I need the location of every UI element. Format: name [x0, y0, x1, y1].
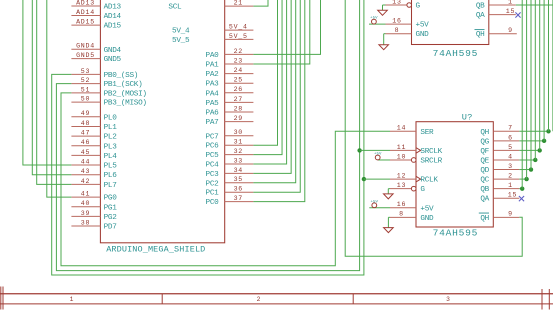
svg-text:46: 46 [81, 139, 90, 146]
svg-text:5V_4: 5V_4 [229, 24, 248, 31]
pin GND5 GND5 of ARDUINO_MEGA_SHIELD [71, 52, 121, 64]
svg-text:9: 9 [508, 211, 513, 218]
svg-text:38: 38 [81, 219, 90, 226]
pin 3 QD of lower U? to column bus [480, 163, 531, 175]
pin 37 PC0 of ARDUINO_MEGA_SHIELD [206, 195, 254, 207]
svg-text:PL5: PL5 [104, 163, 118, 171]
pin 41 PG0 of ARDUINO_MEGA_SHIELD [71, 191, 117, 203]
pin 9 QH\ of upper U? [475, 27, 517, 39]
svg-text:6: 6 [508, 134, 513, 141]
+5V supply symbol on lower pin 16 [369, 200, 390, 208]
svg-text:PB1_(SCK): PB1_(SCK) [104, 81, 143, 89]
svg-text:PG1: PG1 [104, 204, 118, 212]
pin 13 G of lower U? with inverter bubble [390, 182, 425, 194]
svg-text:74AH595: 74AH595 [433, 48, 479, 59]
svg-text:+5V: +5V [371, 200, 379, 204]
svg-text:26: 26 [234, 86, 243, 93]
svg-text:QC: QC [480, 177, 489, 185]
svg-text:49: 49 [81, 110, 90, 117]
svg-text:QH: QH [476, 31, 485, 39]
svg-text:QH: QH [480, 215, 489, 223]
pin 16 +5V of upper U? [386, 18, 430, 30]
svg-text:9: 9 [508, 27, 513, 34]
wire net SS from pin 53 down and along bottom to RCLK chain [52, 0, 364, 275]
svg-text:40: 40 [81, 200, 90, 207]
svg-text:ARDUINO_MEGA_SHIELD: ARDUINO_MEGA_SHIELD [106, 245, 205, 255]
svg-text:PA1: PA1 [206, 62, 220, 70]
pin 13 G of upper U? with inverter bubble [386, 0, 421, 11]
wire net MOSI from pin 51 down and along bottom to SER pin 14 [61, 93, 390, 266]
svg-text:SRCLR: SRCLR [420, 157, 442, 165]
svg-text:PC3: PC3 [206, 171, 220, 179]
svg-text:PA2: PA2 [206, 71, 220, 79]
svg-text:74AH595: 74AH595 [433, 228, 479, 239]
svg-text:PA4: PA4 [206, 90, 220, 98]
pin 45 PL4 of ARDUINO_MEGA_SHIELD [71, 149, 117, 161]
svg-text:PC7: PC7 [206, 133, 220, 141]
junction dot column QD [529, 167, 533, 171]
svg-text:51: 51 [81, 86, 90, 93]
svg-text:35: 35 [234, 176, 243, 183]
svg-text:33: 33 [234, 157, 243, 164]
wire net PL5 from top edge to pin 44 [23, 0, 72, 165]
svg-text:QA: QA [476, 12, 485, 20]
svg-text:8: 8 [395, 27, 400, 34]
pin 27 PA5 of ARDUINO_MEGA_SHIELD [206, 96, 254, 108]
svg-text:47: 47 [81, 130, 90, 137]
svg-text:PD7: PD7 [104, 224, 118, 232]
pin 21 SCL of ARDUINO_MEGA_SHIELD [168, 0, 253, 12]
ground symbol on lower pin 8 [384, 217, 394, 232]
svg-text:41: 41 [81, 191, 90, 198]
pin AD14 AD14 of ARDUINO_MEGA_SHIELD [71, 9, 121, 21]
svg-text:42: 42 [81, 178, 90, 185]
svg-text:PL4: PL4 [104, 153, 118, 161]
ground symbol on lower pin 13 [384, 189, 394, 199]
pin 23 PA1 of ARDUINO_MEGA_SHIELD [206, 57, 254, 69]
junction dot column QG [542, 139, 546, 143]
svg-text:PL2: PL2 [104, 134, 118, 142]
wire net PC0 from pin 37 to top edge [253, 0, 304, 202]
svg-text:GND4: GND4 [76, 43, 95, 50]
svg-text:QE: QE [480, 157, 489, 165]
svg-text:PL6: PL6 [104, 172, 118, 180]
svg-text:GND5: GND5 [76, 52, 95, 59]
wire net PL6 from top edge to pin 43 [32, 0, 71, 175]
svg-text:PB2_(MOSI): PB2_(MOSI) [104, 90, 147, 98]
junction dot column QB [520, 186, 524, 190]
svg-text:1: 1 [508, 182, 513, 189]
pin GND4 GND4 of ARDUINO_MEGA_SHIELD [71, 43, 121, 55]
svg-text:4: 4 [508, 153, 513, 160]
svg-text:25: 25 [234, 77, 243, 84]
wire net SCL from pin 21 to top edge [253, 0, 268, 6]
svg-text:16: 16 [397, 201, 406, 208]
svg-text:PC2: PC2 [206, 180, 220, 188]
svg-text:5V_4: 5V_4 [172, 28, 190, 36]
svg-text:AD15: AD15 [104, 23, 122, 31]
svg-text:G: G [416, 3, 421, 11]
pin 11 SRCLK of lower U? with clock mark [360, 144, 443, 156]
svg-text:7: 7 [508, 125, 513, 132]
svg-text:PC1: PC1 [206, 190, 220, 198]
svg-text:43: 43 [81, 168, 90, 175]
svg-text:AD13: AD13 [76, 0, 95, 6]
svg-text:QD: QD [480, 167, 489, 175]
svg-text:8: 8 [399, 211, 404, 218]
svg-text:23: 23 [234, 57, 243, 64]
pin 5 QF of lower U? to column bus [480, 144, 539, 156]
pin 42 PL7 of ARDUINO_MEGA_SHIELD [71, 178, 117, 190]
pin 4 QE of lower U? to column bus [480, 153, 535, 165]
wire column bus vertical QF [539, 0, 541, 150]
svg-text:GND: GND [420, 215, 434, 223]
pin 30 PC7 of ARDUINO_MEGA_SHIELD [206, 129, 254, 141]
svg-text:AD13: AD13 [104, 4, 122, 12]
svg-text:QH: QH [480, 129, 489, 137]
pin 35 PC2 of ARDUINO_MEGA_SHIELD [206, 176, 254, 188]
wire net PG0 from top edge to pin 41 [47, 0, 72, 197]
IC U$1 ARDUINO_MEGA_SHIELD body [100, 0, 224, 255]
+5V supply symbol on upper pin 16 [369, 17, 386, 25]
svg-text:AD14: AD14 [76, 9, 95, 16]
svg-text:1: 1 [508, 0, 513, 5]
svg-text:48: 48 [81, 120, 90, 127]
svg-text:PA3: PA3 [206, 81, 220, 89]
junction dot column QC [524, 177, 528, 181]
pin 32 PC5 of ARDUINO_MEGA_SHIELD [206, 148, 254, 160]
svg-text:14: 14 [397, 125, 406, 132]
svg-text:G: G [420, 186, 425, 194]
svg-text:2: 2 [257, 296, 261, 303]
svg-text:27: 27 [234, 96, 243, 103]
svg-text:15: 15 [508, 192, 517, 199]
wire net PC3 from pin 34 to top edge [253, 0, 291, 173]
svg-text:22: 22 [234, 48, 243, 55]
svg-text:15: 15 [506, 8, 515, 15]
pin AD13 AD13 of ARDUINO_MEGA_SHIELD [71, 0, 121, 12]
svg-text:QG: QG [480, 138, 489, 146]
wire column bus vertical QD [530, 0, 532, 170]
wire net PC5 from pin 32 to top edge [253, 0, 282, 155]
pin 15 QA of lower U? with no-connect cross [480, 192, 524, 204]
pin 24 PA2 of ARDUINO_MEGA_SHIELD [206, 67, 254, 79]
svg-text:3: 3 [508, 163, 513, 170]
svg-text:44: 44 [81, 158, 90, 165]
pin 53 PB0_(SS) of ARDUINO_MEGA_SHIELD [71, 68, 138, 80]
pin 48 PL1 of ARDUINO_MEGA_SHIELD [71, 120, 117, 132]
+5V supply symbol on SRCLR pin 10 [374, 152, 390, 160]
wire net lower QH\ serial out: right, down, along bottom, up at x=344.8 to top edge [345, 0, 522, 256]
svg-text:12: 12 [397, 173, 406, 180]
svg-text:PB3_(MISO): PB3_(MISO) [104, 100, 147, 108]
wire net PC6 from pin 31 to top edge [253, 0, 277, 145]
svg-text:53: 53 [81, 68, 90, 75]
pin 31 PC6 of ARDUINO_MEGA_SHIELD [206, 139, 254, 151]
svg-text:+5V: +5V [370, 17, 378, 21]
pin 16 +5V of lower U? [390, 201, 434, 213]
sheet frame bottom band [0, 287, 553, 310]
svg-text:PL3: PL3 [104, 143, 118, 151]
svg-text:SCL: SCL [168, 4, 182, 12]
pin 51 PB2_(MOSI) of ARDUINO_MEGA_SHIELD [71, 86, 146, 98]
junction dot column QE [533, 158, 537, 162]
svg-text:PC4: PC4 [206, 162, 220, 170]
wire column bus vertical QE [534, 0, 536, 160]
pin 15 QA of upper U? with no-connect cross [476, 8, 521, 20]
svg-text:52: 52 [81, 77, 90, 84]
pin 44 PL5 of ARDUINO_MEGA_SHIELD [71, 158, 117, 170]
svg-text:PC0: PC0 [206, 199, 220, 207]
svg-text:GND5: GND5 [104, 56, 122, 64]
svg-text:SER: SER [420, 129, 434, 137]
svg-text:SRCLK: SRCLK [420, 148, 442, 156]
pin 8 GND of upper U? [386, 27, 430, 39]
svg-text:24: 24 [234, 67, 243, 74]
wire net PC2 from pin 35 to top edge [253, 0, 295, 183]
pin 52 PB1_(SCK) of ARDUINO_MEGA_SHIELD [71, 77, 142, 89]
pin 10 SRCLR of lower U? with inverter bubble [390, 153, 443, 165]
pin 47 PL2 of ARDUINO_MEGA_SHIELD [71, 130, 117, 142]
pin 8 GND of lower U? [390, 211, 434, 223]
svg-text:28: 28 [234, 105, 243, 112]
svg-text:PL1: PL1 [104, 124, 118, 132]
wire column bus vertical QH [548, 0, 550, 131]
svg-text:31: 31 [234, 139, 243, 146]
svg-text:2: 2 [508, 173, 513, 180]
svg-text:32: 32 [234, 148, 243, 155]
pin 36 PC1 of ARDUINO_MEGA_SHIELD [206, 186, 254, 198]
svg-text:RCLK: RCLK [420, 177, 438, 185]
pin 33 PC4 of ARDUINO_MEGA_SHIELD [206, 157, 254, 169]
svg-text:16: 16 [392, 18, 401, 25]
pin 2 QC of lower U? to column bus [480, 173, 526, 185]
pin 38 PD7 of ARDUINO_MEGA_SHIELD [71, 219, 117, 231]
svg-text:PC5: PC5 [206, 152, 220, 160]
junction dot column QH [546, 129, 550, 133]
pin 14 SER of lower U? [390, 125, 434, 137]
pin 1 QB of upper U? wire to right edge [476, 0, 553, 11]
wire net PC4 from pin 33 to top edge [253, 0, 286, 164]
pin 29 PA7 of ARDUINO_MEGA_SHIELD [206, 115, 254, 127]
svg-text:PL0: PL0 [104, 114, 118, 122]
wire column bus vertical 8 [552, 0, 553, 131]
svg-text:13: 13 [392, 0, 401, 5]
svg-text:PL7: PL7 [104, 182, 118, 190]
wire net PA1 from pin 23 to top edge [253, 0, 309, 64]
pin 40 PG1 of ARDUINO_MEGA_SHIELD [71, 200, 117, 212]
svg-text:PA6: PA6 [206, 110, 220, 118]
pin AD15 AD15 of ARDUINO_MEGA_SHIELD [71, 19, 121, 31]
wire net SCK from pin 52 down and along bottom to SRCLK chain [56, 0, 359, 271]
pin 49 PL0 of ARDUINO_MEGA_SHIELD [71, 110, 117, 122]
svg-text:+5V: +5V [420, 205, 434, 213]
pin 12 RCLK of lower U? with clock mark [364, 173, 438, 185]
svg-text:37: 37 [234, 195, 243, 202]
pin 34 PC3 of ARDUINO_MEGA_SHIELD [206, 167, 254, 179]
svg-text:GND: GND [416, 31, 430, 39]
svg-text:PC6: PC6 [206, 143, 220, 151]
svg-text:13: 13 [397, 182, 406, 189]
svg-text:45: 45 [81, 149, 90, 156]
svg-text:30: 30 [234, 129, 243, 136]
pin 43 PL6 of ARDUINO_MEGA_SHIELD [71, 168, 117, 180]
svg-text:QB: QB [476, 3, 485, 11]
svg-text:29: 29 [234, 115, 243, 122]
pin 1 QB of lower U? to column bus [480, 182, 522, 194]
pin 46 PL3 of ARDUINO_MEGA_SHIELD [71, 139, 117, 151]
svg-text:QA: QA [480, 196, 489, 204]
svg-text:QB: QB [480, 186, 489, 194]
pin 25 PA3 of ARDUINO_MEGA_SHIELD [206, 77, 254, 89]
svg-text:PG2: PG2 [104, 214, 118, 222]
junction dot column QF [538, 148, 542, 152]
pin 7 QH of lower U? to column bus [480, 125, 548, 137]
svg-text:34: 34 [234, 167, 243, 174]
svg-text:10: 10 [397, 153, 406, 160]
wire column bus vertical QC [526, 0, 528, 179]
wire net PC1 from pin 36 to top edge [253, 0, 300, 192]
svg-text:PG0: PG0 [104, 195, 118, 203]
svg-text:QF: QF [480, 148, 489, 156]
svg-text:21: 21 [234, 0, 243, 7]
svg-text:+5V: +5V [374, 152, 382, 156]
ground symbol on upper pin 13 [378, 5, 388, 15]
pin 6 QG of lower U? to column bus [480, 134, 544, 146]
svg-text:PA5: PA5 [206, 100, 220, 108]
wire net PL7 from top edge to pin 42 [37, 0, 72, 184]
svg-text:AD14: AD14 [104, 13, 122, 21]
svg-text:5V_5: 5V_5 [229, 33, 248, 40]
svg-text:PA7: PA7 [206, 119, 220, 127]
wire column bus vertical QG [543, 0, 545, 141]
ground symbol on upper pin 8 [379, 34, 389, 50]
junction SRCLK net at lower 74AH595 pin 11 [357, 148, 361, 152]
svg-text:5V_5: 5V_5 [172, 37, 190, 45]
svg-text:11: 11 [397, 144, 406, 151]
svg-text:5: 5 [508, 144, 513, 151]
junction RCLK net at lower 74AH595 pin 12 [362, 177, 366, 181]
pin 5V_5 5V_5 of ARDUINO_MEGA_SHIELD [172, 33, 253, 45]
pin 39 PG2 of ARDUINO_MEGA_SHIELD [71, 210, 117, 222]
svg-text:AD15: AD15 [76, 19, 95, 26]
IC U? upper 74AH595 body [412, 0, 489, 59]
pin 26 PA4 of ARDUINO_MEGA_SHIELD [206, 86, 254, 98]
svg-text:PB0_(SS): PB0_(SS) [104, 72, 139, 80]
svg-text:36: 36 [234, 186, 243, 193]
wire net PA0 from pin 22 to top edge [253, 0, 320, 54]
pin 5V_4 5V_4 of ARDUINO_MEGA_SHIELD [172, 24, 253, 36]
pin 9 QH\ of lower U? (serial out) [479, 211, 520, 223]
pin 28 PA6 of ARDUINO_MEGA_SHIELD [206, 105, 254, 117]
svg-text:3: 3 [446, 296, 450, 303]
svg-text:1: 1 [70, 296, 74, 303]
svg-text:39: 39 [81, 210, 90, 217]
IC U? lower 74AH595 body [416, 113, 493, 239]
pin 50 PB3_(MISO) of ARDUINO_MEGA_SHIELD [71, 96, 146, 108]
svg-text:50: 50 [81, 96, 90, 103]
svg-text:PA0: PA0 [206, 52, 220, 60]
svg-text:+5V: +5V [416, 22, 430, 30]
pin 22 PA0 of ARDUINO_MEGA_SHIELD [206, 48, 254, 60]
svg-text:U?: U? [462, 113, 473, 123]
svg-text:GND4: GND4 [104, 47, 122, 55]
wire column bus vertical QB [521, 0, 523, 189]
